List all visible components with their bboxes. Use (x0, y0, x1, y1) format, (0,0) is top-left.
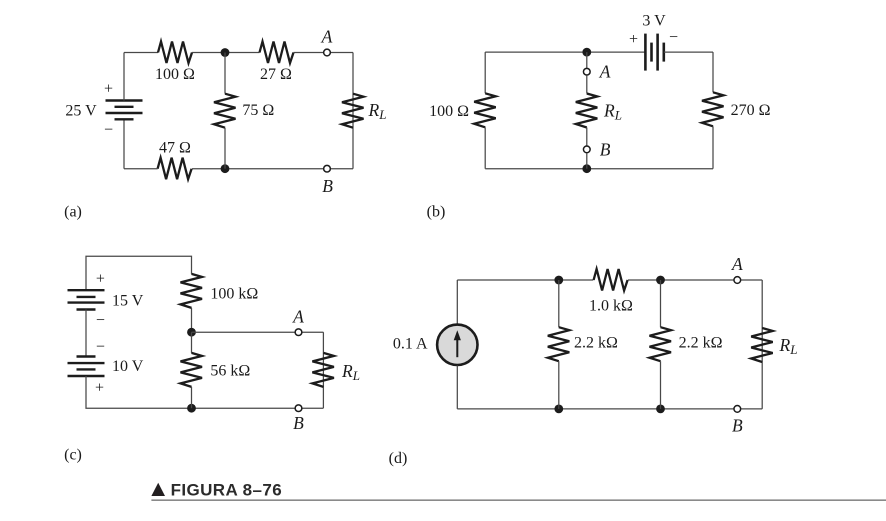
wire (b) right lower (712, 126, 714, 168)
wire (a) bottom-left segment (124, 168, 158, 170)
svg-text:+: + (629, 31, 638, 48)
wire (c) middle: node to A to corner (192, 331, 324, 333)
svg-text:−: − (96, 312, 105, 329)
terminal A (a) (324, 49, 331, 56)
svg-text:A: A (321, 27, 333, 47)
resistor 1.0kΩ (d) (594, 269, 628, 291)
wire (a) top-left segment (124, 52, 158, 54)
label A (d) (731, 254, 743, 274)
node (d) top junction 1 (554, 276, 563, 285)
label − (c 10V top) (96, 338, 105, 355)
wire (d) top: 1.0k to right corner (628, 279, 762, 281)
label 56 kΩ (c) (210, 363, 250, 380)
node (a) top junction (221, 48, 230, 57)
battery 25V (a) (106, 101, 143, 120)
label + (c 15V top) (96, 271, 105, 288)
svg-text:25 V: 25 V (65, 102, 97, 119)
svg-text:A: A (599, 62, 611, 82)
svg-text:+: + (95, 380, 104, 397)
svg-text:A: A (292, 306, 304, 326)
svg-text:2.2 kΩ: 2.2 kΩ (574, 335, 618, 352)
node (d) bottom junction 2 (656, 405, 665, 414)
wire (d) branch1 upper (558, 280, 560, 327)
wire (d) bottom (457, 408, 762, 410)
label RL (b) (603, 100, 622, 122)
label 2.2 kΩ #1 (d) (574, 335, 618, 352)
label A (a) (321, 27, 333, 47)
wire (a) top: 100Ω to 27Ω (192, 52, 260, 54)
wire (d) branch2 lower (660, 361, 662, 409)
battery 3V (b) (645, 34, 663, 71)
svg-text:0.1 A: 0.1 A (393, 335, 428, 352)
wire (b) top: battery to right corner (664, 51, 713, 53)
resistor RL (a) (342, 94, 364, 128)
svg-text:(a): (a) (64, 204, 82, 221)
node (b) bottom junction (582, 164, 591, 173)
label 75 Ω (a) (242, 102, 274, 119)
label 0.1 A (d) (393, 335, 428, 352)
wire (c) bottom: corner to B to node (192, 407, 324, 409)
label A (c) (292, 306, 304, 326)
label A (b) (599, 62, 611, 82)
label − (a battery) (104, 122, 113, 139)
resistor 2.2kΩ #1 (d) (548, 327, 570, 361)
label 100 Ω (b) (429, 103, 469, 120)
svg-text:B: B (600, 139, 611, 159)
caption rule (151, 499, 886, 501)
label 15 V (c) (112, 292, 144, 309)
label (b) (427, 204, 446, 221)
label RL (d) (779, 335, 798, 357)
resistor 100Ω (b) (474, 93, 496, 127)
wire (c) right side (322, 332, 324, 408)
label + (c 10V bottom) (95, 380, 104, 397)
resistor RL (d) (751, 328, 773, 362)
resistor RL (c) (312, 353, 334, 387)
svg-text:47 Ω: 47 Ω (159, 139, 191, 156)
label 25 V (a) (65, 102, 97, 119)
node (b) top junction (582, 48, 591, 57)
resistor 100Ω (a) (158, 42, 192, 64)
node (d) top junction 2 (656, 276, 665, 285)
terminal A (b) (583, 68, 590, 75)
label 100 kΩ (c) (210, 286, 258, 303)
svg-text:15 V: 15 V (112, 292, 144, 309)
svg-text:B: B (732, 416, 743, 436)
label RL (a) (368, 100, 387, 122)
svg-text:2.2 kΩ: 2.2 kΩ (679, 335, 723, 352)
svg-text:−: − (96, 338, 105, 355)
wire (c) left lower + bottom to node (86, 376, 192, 408)
svg-text:100 kΩ: 100 kΩ (210, 286, 258, 303)
label 47 Ω (a) (159, 139, 191, 156)
wire (a) left lower (battery - to bottom) (123, 119, 125, 168)
terminal A (c) (295, 329, 302, 336)
wire (d) branch1 lower (558, 361, 560, 409)
label + (b battery) (629, 31, 638, 48)
label + (a battery) (104, 81, 113, 98)
battery 15V (c) (68, 290, 105, 309)
svg-text:75 Ω: 75 Ω (242, 102, 274, 119)
current source 0.1A (d) (437, 325, 477, 365)
svg-text:(b): (b) (427, 204, 446, 221)
wire (b) left upper (484, 52, 486, 93)
label B (c) (293, 413, 304, 433)
label (d) (389, 450, 408, 467)
node (a) bottom junction (221, 164, 230, 173)
svg-text:100 Ω: 100 Ω (155, 66, 195, 83)
wire (a) top: 27Ω to A and corner (294, 52, 354, 54)
svg-text:56 kΩ: 56 kΩ (210, 363, 250, 380)
node (c) bottom junction (187, 404, 196, 413)
caption triangle marker (151, 483, 165, 496)
wire (a) left upper (top to battery +) (123, 53, 125, 101)
label − (b battery) (669, 29, 678, 46)
svg-text:−: − (669, 29, 678, 46)
wire (c) left middle (between batteries) (85, 310, 87, 357)
resistor 27Ω (a) (260, 42, 294, 64)
terminal A (d) (734, 277, 741, 284)
svg-text:27 Ω: 27 Ω (260, 66, 292, 83)
wire (b) right upper (712, 52, 714, 92)
wire (d) top: left to 1.0k (457, 279, 593, 281)
battery 10V (c) (68, 357, 105, 377)
label 100 Ω (a) (155, 66, 195, 83)
node (c) middle junction (187, 328, 196, 337)
wire (c) 56k to bottom (191, 387, 193, 408)
terminal B (a) (324, 165, 331, 172)
wire (c) top (86, 256, 192, 290)
wire (b) branch: RL to B (586, 128, 588, 146)
label B (d) (732, 416, 743, 436)
svg-text:−: − (104, 122, 113, 139)
wire (a) bottom: node to 47Ω (192, 168, 225, 170)
wire (d) right side (761, 280, 763, 409)
node (d) bottom junction 1 (554, 405, 563, 414)
svg-text:B: B (322, 176, 333, 196)
wire (a) middle branch lower (224, 128, 226, 169)
svg-text:(c): (c) (64, 446, 82, 463)
resistor 270Ω (b) (702, 92, 724, 126)
wire (c) middle column: 100k to node (191, 308, 193, 332)
label 2.2 kΩ #2 (d) (679, 335, 723, 352)
resistor 100kΩ (c) (181, 274, 203, 308)
wire (c) middle column lower (191, 332, 193, 353)
label B (b) (600, 139, 611, 159)
svg-text:A: A (731, 254, 743, 274)
label (a) (64, 204, 82, 221)
label 27 Ω (a) (260, 66, 292, 83)
svg-text:100 Ω: 100 Ω (429, 103, 469, 120)
label − (c 15V bottom) (96, 312, 105, 329)
label 270 Ω (b) (731, 102, 771, 119)
wire (d) branch2 upper (660, 280, 662, 327)
label 3 V (b) (642, 13, 666, 30)
label 10 V (c) (112, 358, 144, 375)
svg-text:+: + (104, 81, 113, 98)
label (c) (64, 446, 82, 463)
wire (b) branch: node to A (586, 52, 588, 68)
label 1.0 kΩ (d) (589, 297, 633, 314)
resistor 2.2kΩ #2 (d) (650, 327, 672, 361)
wire (b) branch: A to RL (586, 75, 588, 93)
svg-text:270 Ω: 270 Ω (731, 102, 771, 119)
svg-text:B: B (293, 413, 304, 433)
wire (a) right side (352, 53, 354, 169)
terminal B (c) (295, 405, 302, 412)
svg-text:FIGURA 8–76: FIGURA 8–76 (171, 480, 282, 499)
wire (a) bottom: corner to B to node (225, 168, 353, 170)
caption text FIGURA 8-76 (171, 480, 282, 499)
resistor 56kΩ (c) (181, 353, 203, 387)
resistor 47Ω (a) (158, 158, 192, 180)
resistor RL (b) (576, 94, 598, 128)
wire (a) middle branch upper (224, 53, 226, 94)
label RL (c) (341, 361, 360, 383)
wire (b) left lower (484, 127, 486, 168)
svg-text:10 V: 10 V (112, 358, 144, 375)
terminal B (d) (734, 406, 741, 413)
wire (b) branch: B to node (586, 153, 588, 169)
wire (d) left lower (456, 366, 458, 409)
svg-text:1.0 kΩ: 1.0 kΩ (589, 297, 633, 314)
wire (b) bottom (485, 168, 713, 170)
svg-text:(d): (d) (389, 450, 408, 467)
terminal B (b) (583, 146, 590, 153)
svg-text:3 V: 3 V (642, 13, 666, 30)
wire (b) top: left to node to battery (485, 51, 645, 53)
resistor 75Ω (a) (214, 94, 236, 128)
wire (d) left upper (456, 280, 458, 324)
svg-text:+: + (96, 271, 105, 288)
label B (a) (322, 176, 333, 196)
